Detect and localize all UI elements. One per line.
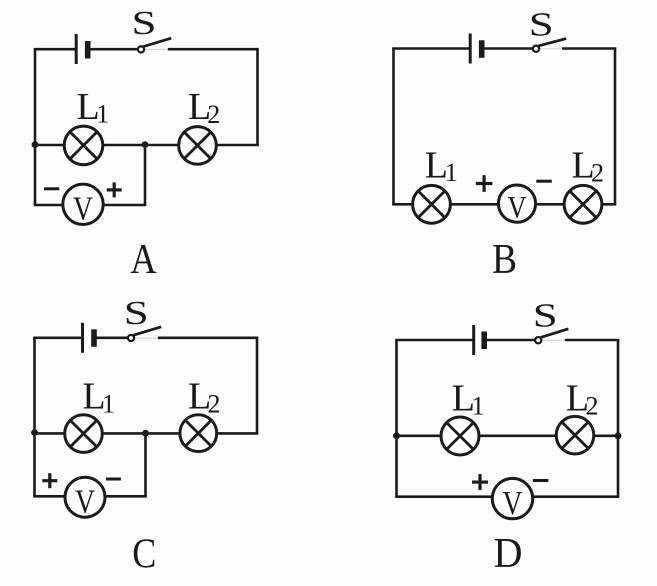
svg-text:S: S <box>533 297 558 334</box>
wire: B left vertical <box>392 49 395 205</box>
svg-text:1: 1 <box>96 100 109 129</box>
polarity minus (A) <box>44 187 59 190</box>
switch S (A) <box>138 38 171 52</box>
svg-text:1: 1 <box>102 390 115 419</box>
wire: A lamp row <box>34 144 259 147</box>
lamp L2 (A) <box>179 127 217 165</box>
svg-text:2: 2 <box>207 100 220 129</box>
polarity plus (A) <box>107 182 122 197</box>
lamp L1 (A) <box>64 126 103 165</box>
voltmeter V (B) <box>498 185 535 225</box>
svg-text:1: 1 <box>445 158 458 187</box>
svg-text:V: V <box>73 191 93 228</box>
wire: B battery to switch <box>484 47 534 50</box>
svg-text:V: V <box>75 483 95 520</box>
wire: A top left segment <box>34 48 76 51</box>
wire: C switch to top-right corner <box>158 336 258 339</box>
wire: C battery to switch <box>96 336 128 339</box>
wire: D top left segment <box>395 339 473 342</box>
battery (A) <box>76 34 88 64</box>
wire: C middle vertical branch <box>144 433 147 496</box>
switch S (C) <box>128 327 161 341</box>
lamp L2 (C) <box>180 415 217 452</box>
polarity plus (D) <box>472 474 488 490</box>
polarity minus (D) <box>533 479 549 482</box>
junction dot (D, right node) <box>615 432 622 439</box>
battery (B) <box>470 34 482 64</box>
svg-text:V: V <box>503 485 523 522</box>
svg-text:S: S <box>132 5 157 42</box>
wire: B bottom row <box>392 203 616 206</box>
junction dot (C, left node) <box>31 429 38 436</box>
lamp L1 (D) <box>441 417 479 455</box>
label L1 (B) <box>425 145 458 188</box>
wire: C top left segment <box>33 336 82 339</box>
lamp L1 (B) <box>413 185 451 223</box>
svg-text:S: S <box>124 295 149 332</box>
svg-text:2: 2 <box>586 392 599 421</box>
svg-text:C: C <box>132 532 156 578</box>
wire: D switch to top-right corner <box>565 339 620 342</box>
svg-text:D: D <box>494 531 523 577</box>
polarity plus (B) <box>476 175 493 192</box>
wire: D voltmeter row <box>395 495 619 498</box>
wire: A right vertical <box>256 49 259 145</box>
label L1 (A) <box>77 86 110 129</box>
polarity minus (B) <box>536 180 552 183</box>
wire: D lamp row <box>395 434 619 437</box>
wire: C lamp row <box>33 432 258 435</box>
battery (D) <box>474 325 485 355</box>
label L2 (D) <box>566 377 599 420</box>
voltmeter V (C) <box>65 477 105 520</box>
wire: D battery to switch <box>486 339 535 342</box>
lamp L2 (B) <box>564 185 602 223</box>
junction dot (D, left node) <box>393 432 400 439</box>
label L2 (C) <box>188 376 221 419</box>
label L2 (B) <box>572 145 605 188</box>
svg-text:2: 2 <box>208 390 221 419</box>
wire: B switch to top-right corner <box>562 47 616 50</box>
svg-text:2: 2 <box>591 159 604 188</box>
wire: A battery to switch <box>89 48 138 51</box>
voltmeter V (D) <box>492 478 532 522</box>
wire: B right vertical <box>614 49 617 205</box>
wire: A switch to top-right corner <box>168 48 259 51</box>
svg-text:V: V <box>508 189 527 225</box>
polarity minus (C) <box>106 478 121 481</box>
junction dot (A, left node) <box>32 141 39 148</box>
label L1 (C) <box>82 376 115 419</box>
svg-text:B: B <box>492 237 517 283</box>
voltmeter V (A) <box>63 184 103 228</box>
svg-text:S: S <box>529 6 554 43</box>
wire: A voltmeter row <box>34 204 147 207</box>
lamp L2 (D) <box>556 416 594 454</box>
svg-text:A: A <box>130 237 157 283</box>
wire: A middle vertical branch <box>144 145 147 205</box>
lamp L1 (C) <box>65 415 103 453</box>
wire: C left vertical <box>33 338 36 497</box>
wire: D left vertical <box>395 340 398 497</box>
switch S (B) <box>533 39 566 52</box>
wire: A left vertical <box>34 49 37 205</box>
label L2 (A) <box>188 86 220 129</box>
switch S (D) <box>535 329 568 344</box>
wire: B top left segment <box>392 47 470 50</box>
polarity plus (C) <box>42 473 57 488</box>
battery (C) <box>83 323 95 353</box>
junction dot (C, middle node) <box>142 430 149 437</box>
wire: C right vertical <box>256 338 259 434</box>
svg-text:1: 1 <box>472 391 485 420</box>
label L1 (D) <box>452 377 485 420</box>
junction dot (A, middle node) <box>142 141 149 148</box>
wire: C voltmeter row <box>33 495 147 498</box>
wire: D right vertical <box>617 340 620 497</box>
